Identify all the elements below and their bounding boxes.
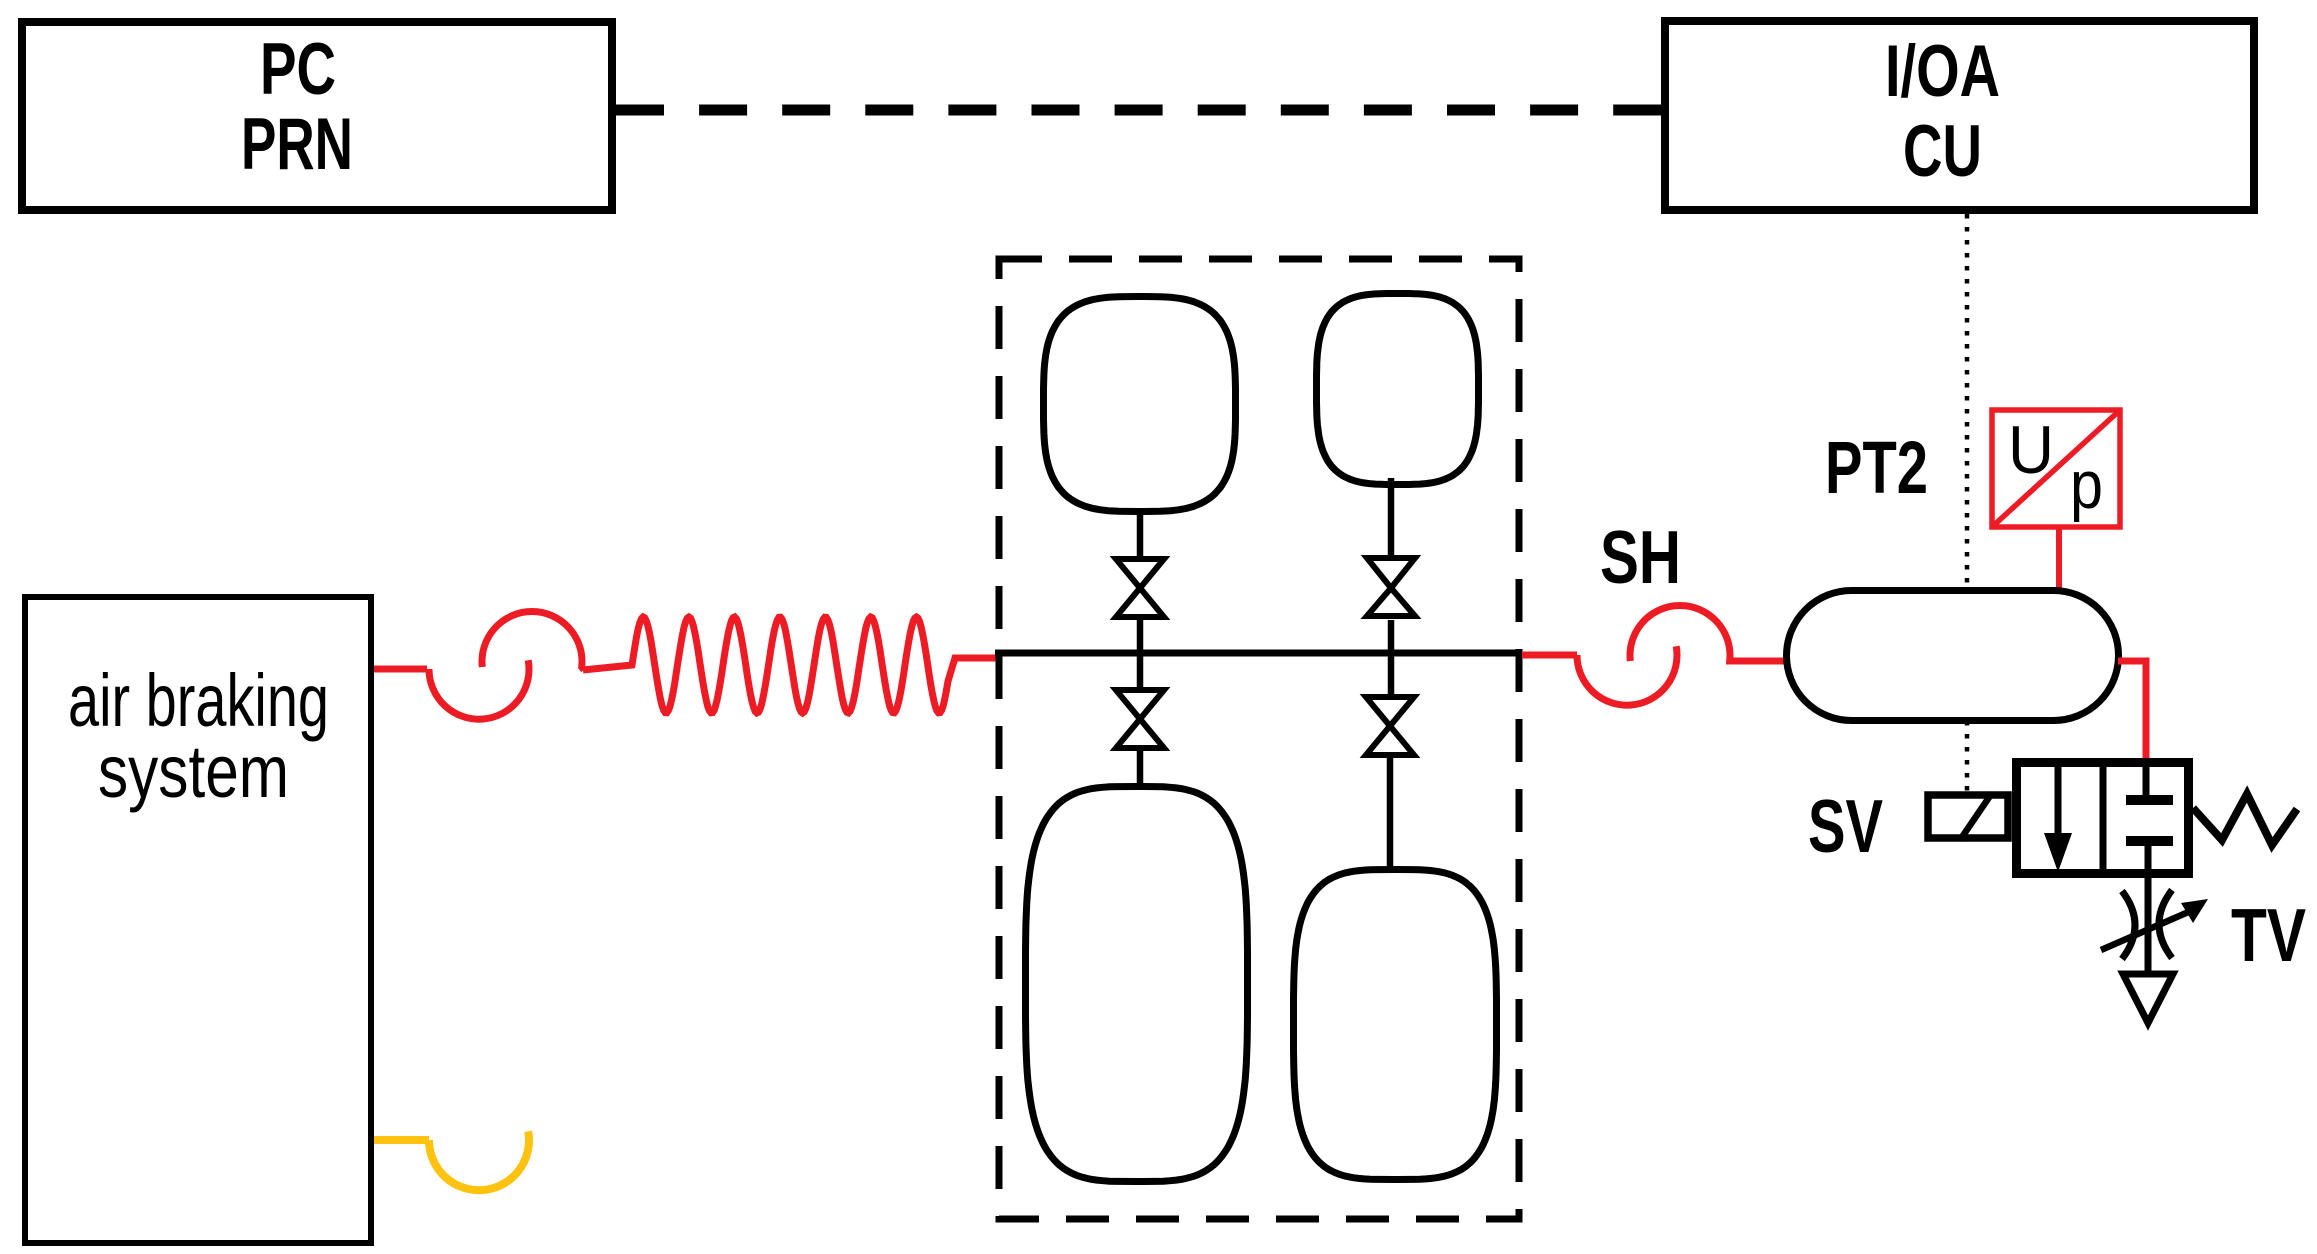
wire valve1 to main line: [1137, 619, 1144, 688]
wire SV to throttle: [2145, 878, 2152, 974]
svg-text:CU: CU: [1903, 111, 1982, 192]
valve V1 shutoff: [1116, 559, 1164, 617]
hose coupling left (upper arc): [482, 612, 584, 670]
wire valve3 to main line: [1388, 620, 1395, 695]
box I/OA CU: [1665, 21, 2254, 210]
svg-text:SH: SH: [1600, 515, 1681, 599]
dashed test-rig enclosure: [999, 259, 1519, 1219]
wire yellow pilot line: [374, 1136, 429, 1144]
spring return: [2193, 794, 2297, 845]
hose coupling SH (lower bowl): [1577, 646, 1677, 705]
svg-text:p: p: [2070, 447, 2103, 523]
wire red transducer to reservoir: [2056, 527, 2062, 590]
wire dashed data link PC to I/OA: [616, 105, 1661, 116]
throttle adjustment arrow: [2101, 910, 2193, 950]
svg-text:U: U: [2008, 412, 2054, 488]
svg-text:PT2: PT2: [1825, 426, 1928, 509]
svg-text:PC: PC: [260, 29, 336, 110]
transducer U/p box PT2: [1992, 410, 2120, 527]
valve V3 shutoff: [1367, 558, 1415, 616]
svg-text:I/OA: I/OA: [1885, 31, 2000, 112]
svg-text:SV: SV: [1808, 784, 1883, 868]
solenoid actuator: [1928, 793, 2008, 840]
hose coupling SH (upper arc): [1630, 606, 1786, 661]
wire stem tank2 to valve3: [1388, 478, 1395, 555]
solenoid valve SV body: [2017, 758, 2189, 878]
wire red supply line from air braking system: [374, 666, 427, 673]
wire valve4 to tank4: [1387, 757, 1394, 872]
tank lower-right: [1294, 870, 1497, 1180]
tank upper-left: [1044, 297, 1236, 512]
wire red reservoir to SV valve: [2118, 661, 2146, 766]
box PC/PRN: [22, 22, 612, 210]
valve V4 shutoff: [1366, 697, 1414, 755]
wire red coiled hose: [583, 617, 997, 713]
wire red line out of enclosure: [1522, 652, 1577, 659]
yellow hose coupling (bowl): [429, 1131, 529, 1190]
reservoir capsule: [1787, 591, 2119, 721]
hose coupling left (lower bowl): [429, 660, 529, 719]
box air braking system: [25, 597, 371, 1243]
wire stem tank1 to valve1: [1137, 511, 1144, 557]
throttle valve TV arcs: [2122, 891, 2135, 959]
tank lower-left: [1026, 787, 1248, 1182]
tank upper-right: [1317, 294, 1479, 485]
blocked port right cell: [2143, 764, 2150, 797]
wire main manifold line: [995, 650, 1522, 657]
wire valve2 to tank3: [1137, 750, 1144, 790]
svg-text:PRN: PRN: [241, 104, 353, 185]
svg-text:TV: TV: [2231, 893, 2306, 977]
valve V2 shutoff: [1116, 690, 1164, 748]
flow arrow left cell: [2055, 762, 2062, 836]
svg-text:system: system: [98, 730, 289, 813]
exhaust silencer triangle: [2123, 974, 2173, 1023]
wire dotted control line CU to PT2/SV: [1965, 214, 1970, 798]
